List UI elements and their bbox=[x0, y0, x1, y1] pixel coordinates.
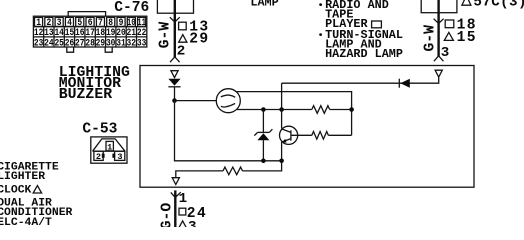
node D (right rail) bbox=[349, 107, 354, 112]
svg-text:57C(3): 57C(3) bbox=[473, 0, 524, 10]
wire buzzer bottom to resistor R1 bbox=[237, 109, 312, 111]
wire base to resistor R2 bbox=[292, 134, 312, 136]
wire zener to node E bbox=[262, 140, 264, 161]
wire diode to node A bbox=[174, 87, 176, 101]
resistor R3 bbox=[223, 167, 243, 175]
svg-text:26: 26 bbox=[65, 38, 75, 49]
note list left bbox=[0, 161, 73, 229]
note list right bbox=[319, 0, 403, 61]
junction block top-left bbox=[157, 0, 193, 13]
svg-text:15: 15 bbox=[457, 30, 477, 46]
wire node A to buzzer bbox=[175, 100, 217, 102]
svg-text:C-76: C-76 bbox=[114, 0, 149, 16]
resistor R2 bbox=[312, 132, 329, 140]
zener diode ZD1 bbox=[254, 129, 272, 140]
node A bbox=[172, 98, 177, 103]
svg-text:23: 23 bbox=[34, 38, 44, 49]
wire collector drop x281.6 bbox=[281, 83, 283, 128]
wire buzzer top tangent to right drop bbox=[236, 92, 351, 136]
svg-text:C-53: C-53 bbox=[82, 121, 117, 137]
node C (collector rail) bbox=[279, 107, 284, 112]
wire R3 to output corner bbox=[176, 171, 223, 178]
svg-text:LAMP: LAMP bbox=[250, 0, 278, 9]
svg-text:31: 31 bbox=[116, 38, 126, 49]
svg-text:3: 3 bbox=[188, 219, 197, 227]
buzzer unit box bbox=[140, 66, 474, 188]
svg-text:25: 25 bbox=[54, 38, 64, 49]
terminal square 24 bottom bbox=[179, 208, 186, 215]
svg-text:G-O: G-O bbox=[159, 203, 175, 227]
branch chevron bottom of right wire bbox=[434, 56, 444, 61]
svg-text:29: 29 bbox=[189, 32, 209, 48]
terminal triangle 3 bottom bbox=[179, 221, 187, 229]
svg-text:33: 33 bbox=[137, 38, 147, 49]
wire node F down to output rail bbox=[243, 161, 282, 171]
wire G-O output harness bbox=[174, 190, 176, 228]
resistor R1 bbox=[312, 106, 330, 114]
svg-text:30: 30 bbox=[106, 38, 116, 49]
buzzer sounder B1 bbox=[216, 89, 240, 113]
svg-text:1: 1 bbox=[179, 191, 188, 207]
terminal triangle 15 right bbox=[444, 32, 453, 40]
wire left drop node A to bottom rail bbox=[175, 101, 282, 161]
wire G-W left (vertical harness) bbox=[174, 0, 176, 58]
connector C-53 bbox=[91, 137, 127, 163]
terminal square 13 left bbox=[179, 22, 187, 30]
connector chevron on right wire bbox=[434, 19, 444, 24]
branch chevron bottom of left wire bbox=[170, 57, 180, 62]
branch chevron top of output wire bbox=[171, 192, 181, 197]
svg-text:LIGHTER: LIGHTER bbox=[0, 171, 45, 183]
svg-text:HAZARD LAMP: HAZARD LAMP bbox=[325, 47, 403, 61]
svg-text:24: 24 bbox=[44, 38, 54, 49]
wire R2 to right rail bbox=[328, 134, 351, 136]
reference triangle 57C(3) top-right bbox=[462, 0, 471, 5]
svg-text:G-W: G-W bbox=[423, 25, 439, 52]
svg-text:3: 3 bbox=[441, 45, 450, 61]
wire top rail y83 bbox=[282, 77, 439, 83]
svg-text:G-W: G-W bbox=[157, 22, 173, 49]
diode D1 (left input) bbox=[168, 79, 180, 86]
junction block top-right bbox=[421, 0, 457, 13]
label LIGHTING MONITOR BUZZER bbox=[59, 65, 130, 103]
svg-text:2: 2 bbox=[177, 43, 186, 59]
svg-text:1: 1 bbox=[107, 142, 112, 152]
wire emitter drop bbox=[281, 142, 283, 161]
terminal triangle 29 left bbox=[179, 35, 187, 43]
svg-text:28: 28 bbox=[85, 38, 95, 49]
wire node B down to zener bbox=[262, 110, 264, 133]
svg-text:CLOCK: CLOCK bbox=[0, 185, 32, 197]
svg-text:BUZZER: BUZZER bbox=[59, 87, 112, 103]
node E (zener bottom) bbox=[261, 159, 266, 164]
transistor Q1 bbox=[280, 126, 298, 144]
right input terminal arrow bbox=[435, 70, 442, 77]
terminal square 18 right bbox=[445, 20, 454, 28]
connector chevron on left wire bbox=[170, 17, 180, 22]
output terminal arrow bbox=[172, 178, 179, 185]
svg-text:2: 2 bbox=[96, 152, 101, 162]
wire R1 to node D bbox=[330, 109, 352, 111]
svg-text:3: 3 bbox=[117, 152, 122, 162]
wire G-W right (vertical harness) bbox=[437, 0, 439, 57]
node F (emitter junction) bbox=[279, 159, 284, 164]
svg-text:ELC-4A/T: ELC-4A/T bbox=[0, 217, 52, 227]
svg-text:32: 32 bbox=[127, 38, 137, 49]
svg-text:29: 29 bbox=[96, 38, 106, 49]
svg-text:27: 27 bbox=[75, 38, 85, 49]
left input terminal arrow bbox=[171, 71, 178, 78]
connector C-76 bbox=[33, 12, 146, 53]
diode D2 (right, pointing left) bbox=[400, 79, 410, 88]
node B (zener top) bbox=[261, 107, 266, 112]
